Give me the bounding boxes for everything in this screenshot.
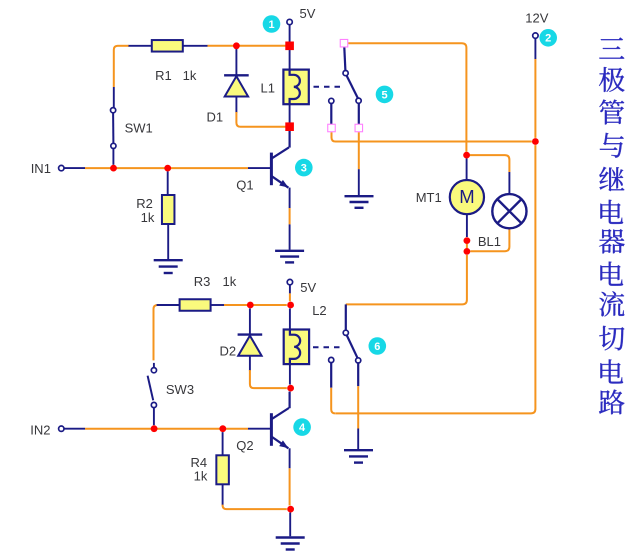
svg-text:BL1: BL1 (478, 234, 501, 249)
svg-text:R1: R1 (155, 68, 172, 83)
svg-text:2: 2 (545, 33, 551, 45)
svg-text:4: 4 (299, 422, 306, 434)
svg-text:M: M (459, 186, 474, 207)
svg-text:1k: 1k (194, 469, 208, 484)
svg-text:R2: R2 (136, 196, 153, 211)
svg-text:5V: 5V (300, 280, 316, 295)
svg-text:1: 1 (268, 19, 274, 31)
svg-text:1k: 1k (183, 68, 197, 83)
svg-text:1k: 1k (141, 210, 155, 225)
svg-text:D1: D1 (207, 110, 224, 125)
svg-text:MT1: MT1 (416, 190, 442, 205)
svg-text:L1: L1 (261, 80, 275, 95)
svg-text:L2: L2 (312, 303, 326, 318)
svg-text:Q1: Q1 (236, 178, 253, 193)
svg-text:R4: R4 (191, 455, 208, 470)
svg-text:SW1: SW1 (125, 120, 153, 135)
svg-text:D2: D2 (220, 344, 237, 359)
svg-text:IN2: IN2 (30, 423, 50, 438)
svg-text:5V: 5V (300, 6, 316, 21)
svg-text:12V: 12V (525, 10, 548, 25)
svg-text:3: 3 (301, 163, 307, 175)
svg-text:6: 6 (374, 341, 380, 353)
svg-text:Q2: Q2 (236, 438, 253, 453)
svg-text:IN1: IN1 (31, 161, 51, 176)
svg-text:R3: R3 (194, 274, 211, 289)
svg-text:SW3: SW3 (166, 382, 194, 397)
svg-text:1k: 1k (223, 274, 237, 289)
svg-text:5: 5 (381, 89, 387, 101)
